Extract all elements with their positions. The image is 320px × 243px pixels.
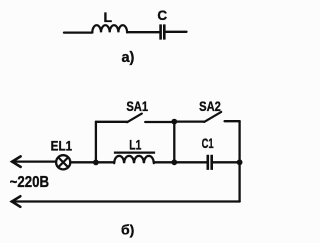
switch SA2 xyxy=(199,98,239,122)
inductor L xyxy=(92,9,127,33)
wire top branch node B to SA2 xyxy=(174,120,204,122)
wire xyxy=(213,161,240,163)
wire xyxy=(166,31,187,33)
wire bottom return with left arrow xyxy=(12,196,240,207)
junction node B bottom xyxy=(171,159,177,165)
svg-text:а): а) xyxy=(121,50,134,66)
wire xyxy=(154,161,207,163)
capacitor C1 xyxy=(202,135,214,170)
lamp EL1 xyxy=(51,138,73,170)
svg-text:б): б) xyxy=(121,222,134,238)
svg-text:~220В: ~220В xyxy=(10,174,50,191)
svg-text:SA1: SA1 xyxy=(126,98,148,114)
svg-text:C: C xyxy=(157,8,167,23)
svg-text:C1: C1 xyxy=(202,135,214,151)
svg-text:EL1: EL1 xyxy=(51,138,73,154)
wire top branch xyxy=(96,121,127,123)
wire right vertical xyxy=(238,121,240,201)
svg-text:L: L xyxy=(104,9,113,25)
junction node A xyxy=(93,160,99,166)
wire xyxy=(64,31,92,33)
wire xyxy=(127,31,159,33)
wire xyxy=(70,161,114,163)
switch SA1 xyxy=(126,98,174,122)
inductor L1 xyxy=(114,137,155,164)
junction right xyxy=(237,159,243,165)
svg-text:L1: L1 xyxy=(129,137,141,153)
capacitor C xyxy=(157,8,167,40)
wire left vertical xyxy=(95,122,97,163)
wire source lead with left arrow xyxy=(12,156,56,167)
wire node B vertical xyxy=(173,122,175,163)
junction node B top xyxy=(171,119,177,125)
svg-text:SA2: SA2 xyxy=(199,98,221,114)
